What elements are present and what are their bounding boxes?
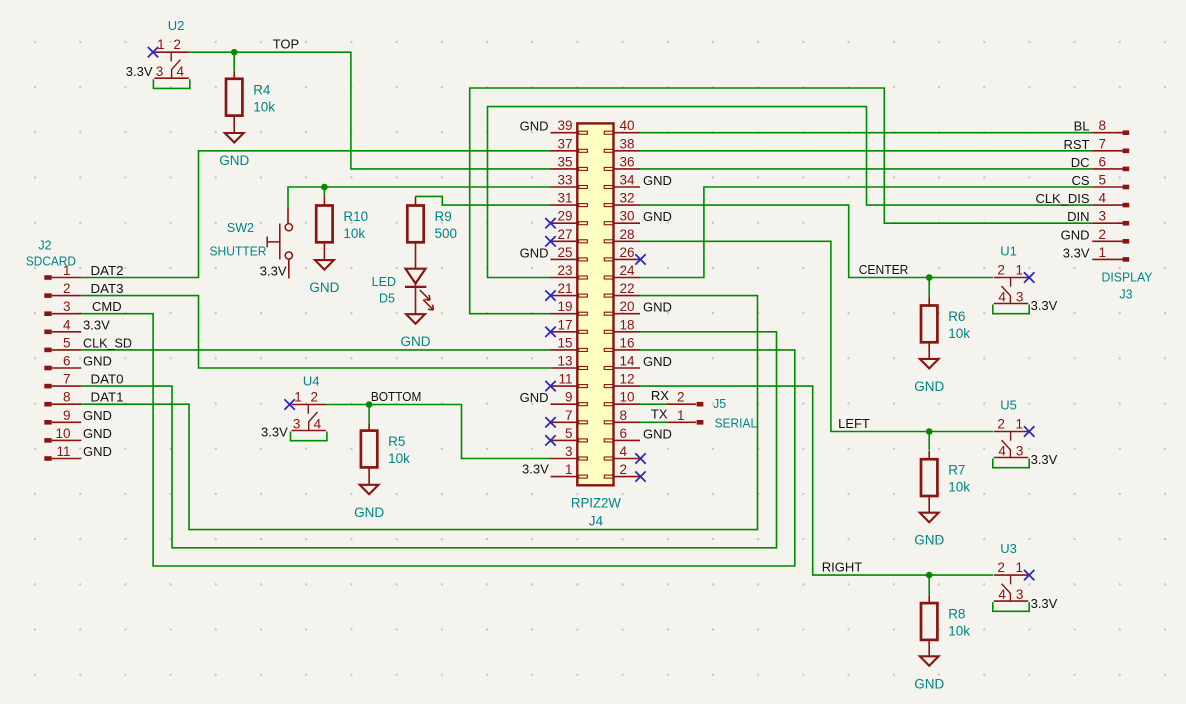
svg-text:29: 29: [557, 209, 572, 224]
J3 reference labels: [1102, 271, 1154, 302]
svg-text:R5: R5: [388, 434, 405, 449]
svg-text:SW2: SW2: [227, 221, 254, 235]
wire DC (J4-36 to J3-6): [640, 168, 1092, 170]
svg-text:5: 5: [565, 426, 573, 441]
svg-text:21: 21: [557, 281, 572, 296]
svg-text:GND: GND: [354, 505, 384, 520]
svg-text:R7: R7: [948, 463, 965, 478]
svg-text:CS: CS: [1071, 173, 1089, 188]
svg-text:2: 2: [620, 462, 628, 477]
wire CLK_DIS (J4-23 to J3-4): [488, 107, 1093, 278]
J4 pin 39: [551, 118, 588, 134]
connector J3 pin 6: [1092, 154, 1129, 171]
svg-text:TX: TX: [651, 406, 668, 421]
wire R6 to CENTER: [928, 278, 930, 298]
svg-text:4: 4: [998, 587, 1006, 602]
ground at R4: [219, 133, 249, 168]
svg-text:GND: GND: [643, 426, 672, 441]
J4 pin 20: [604, 299, 640, 315]
switch U1: [994, 244, 1028, 305]
J4 pin 28: [604, 227, 640, 243]
J4 pin 24: [604, 263, 640, 279]
svg-text:R10: R10: [343, 209, 368, 224]
J4 pin 12: [604, 372, 640, 388]
J4 pin 31: [551, 191, 588, 207]
wire TX (J4-8 to J5-1): [640, 421, 668, 423]
svg-text:GND: GND: [643, 173, 672, 188]
J4 pin 9: [551, 390, 588, 406]
wire TOP net: [189, 52, 551, 169]
svg-text:6: 6: [63, 354, 71, 369]
no-connect J4 pin 21: [545, 290, 555, 300]
wire CS (J4-24 to J3-5): [640, 187, 1092, 278]
wire RIGHT (J4-12 to U3): [640, 386, 993, 575]
svg-text:7: 7: [565, 408, 573, 423]
J4 pin 15: [551, 335, 588, 351]
svg-text:GND: GND: [401, 334, 431, 349]
no-connect U4 pin 1: [284, 399, 294, 409]
J4 pin 3: [551, 444, 588, 460]
connector J2 pin 1: [44, 263, 81, 280]
connector J2 pin 8: [44, 390, 81, 407]
no-connect U3 pin 1: [1024, 570, 1034, 580]
svg-text:GND: GND: [1061, 227, 1090, 242]
svg-text:9: 9: [63, 408, 71, 423]
svg-text:3.3V: 3.3V: [1063, 245, 1090, 260]
J4 pin 23: [551, 263, 588, 279]
svg-text:3.3V: 3.3V: [83, 317, 110, 332]
J4 pin 18: [604, 317, 640, 333]
wire CENTER (J4-32 to U1): [640, 205, 993, 277]
svg-text:GND: GND: [309, 280, 339, 295]
svg-text:4: 4: [177, 64, 185, 79]
J4 pin 19: [551, 299, 588, 315]
svg-text:GND: GND: [914, 676, 944, 691]
J4 pin 21: [551, 281, 588, 297]
svg-text:DISPLAY: DISPLAY: [1102, 271, 1154, 285]
svg-text:4: 4: [998, 443, 1006, 458]
no-connect J4 pin 17: [545, 327, 555, 337]
svg-text:D5: D5: [379, 291, 395, 305]
svg-text:32: 32: [620, 191, 635, 206]
svg-text:1: 1: [157, 37, 165, 52]
svg-text:18: 18: [620, 317, 635, 332]
svg-text:CMD: CMD: [92, 299, 122, 314]
junction SHUTTER/R10: [321, 184, 328, 191]
svg-text:14: 14: [620, 354, 636, 369]
svg-text:7: 7: [63, 372, 71, 387]
no-connect J4 pin 5: [545, 435, 555, 445]
svg-text:3: 3: [1016, 587, 1024, 602]
svg-text:12: 12: [620, 372, 635, 387]
resistor R5 10k: [361, 431, 410, 468]
wire R9 to J4-31: [416, 196, 551, 205]
svg-text:U4: U4: [303, 374, 320, 389]
J4 pin 14: [604, 354, 640, 370]
no-connect J4 pin 11: [545, 381, 555, 391]
wire R10 to SHUTTER rail: [323, 187, 325, 196]
svg-text:3.3V: 3.3V: [1031, 596, 1058, 611]
svg-text:10k: 10k: [948, 326, 970, 341]
J4 pin 22: [604, 281, 640, 297]
svg-text:3: 3: [293, 416, 301, 431]
svg-text:39: 39: [557, 118, 572, 133]
svg-text:RPIZ2W: RPIZ2W: [571, 496, 621, 511]
junction BOTTOM/R5: [366, 401, 373, 408]
connector J3 pin 8: [1092, 118, 1129, 135]
connector J2 pin 3: [44, 299, 81, 316]
wire CMD (J2-3 to J4-16): [81, 314, 795, 566]
LED D5: [372, 269, 434, 315]
svg-text:J3: J3: [1119, 288, 1132, 302]
switch U4: [292, 374, 326, 432]
connector J5 pin 2: [667, 390, 703, 407]
svg-text:34: 34: [620, 173, 636, 188]
connector J2 pin 2: [44, 281, 81, 298]
resistor R8 10k: [921, 603, 970, 640]
resistor R7 10k: [921, 459, 970, 496]
ground at R8: [914, 656, 944, 691]
svg-text:4: 4: [998, 289, 1006, 304]
J4 pin 27: [551, 227, 588, 243]
svg-text:1: 1: [1015, 416, 1023, 431]
no-connect U5 pin 1: [1024, 426, 1034, 436]
connector J3 pin 2: [1092, 227, 1129, 244]
svg-text:SDCARD: SDCARD: [26, 255, 76, 269]
svg-text:8: 8: [620, 408, 628, 423]
connector J5 pin 1: [667, 408, 703, 425]
ground at R7: [914, 513, 944, 548]
connector J2 pin 11: [44, 444, 81, 461]
svg-text:3.3V: 3.3V: [522, 462, 549, 477]
no-connect J4 pin 2: [635, 471, 645, 481]
wire BOTTOM (U4 to J4-3): [326, 405, 551, 459]
svg-text:20: 20: [620, 299, 635, 314]
svg-text:3: 3: [1099, 209, 1107, 224]
svg-text:2: 2: [997, 560, 1005, 575]
svg-text:GND: GND: [643, 209, 672, 224]
wire CLK_SD (J2-5 to J4-15): [81, 349, 550, 351]
J4 pin 40: [604, 118, 640, 134]
connector J2 pin 7: [44, 372, 81, 389]
J4 pin 25: [551, 245, 588, 261]
J4 pin 13: [551, 354, 588, 370]
junction CENTER/R6: [926, 274, 933, 281]
svg-text:LED: LED: [372, 275, 396, 289]
svg-text:RST: RST: [1064, 137, 1090, 152]
svg-text:1: 1: [1015, 262, 1023, 277]
svg-text:3: 3: [1016, 443, 1024, 458]
svg-text:2: 2: [63, 281, 71, 296]
svg-text:8: 8: [1099, 118, 1107, 133]
connector J3 pin 4: [1092, 191, 1129, 208]
svg-text:40: 40: [620, 118, 635, 133]
no-connect J4 pin 4: [635, 453, 645, 463]
svg-text:25: 25: [557, 245, 572, 260]
svg-text:35: 35: [557, 154, 572, 169]
wire R5 to BOTTOM: [368, 405, 370, 424]
junction LEFT/R7: [926, 428, 933, 435]
svg-text:3.3V: 3.3V: [261, 425, 288, 440]
svg-text:27: 27: [557, 227, 572, 242]
svg-text:BL: BL: [1074, 119, 1090, 134]
svg-text:19: 19: [557, 299, 572, 314]
svg-text:10k: 10k: [948, 480, 970, 495]
wire RST (J4-38 to J3-7): [640, 150, 1092, 152]
svg-text:BOTTOM: BOTTOM: [371, 389, 422, 404]
svg-text:RIGHT: RIGHT: [822, 560, 863, 575]
svg-text:24: 24: [620, 263, 636, 278]
J2 reference labels: [26, 239, 76, 269]
svg-text:37: 37: [557, 136, 572, 151]
svg-text:GND: GND: [83, 354, 112, 369]
svg-text:DAT3: DAT3: [91, 281, 124, 296]
svg-text:3: 3: [63, 299, 71, 314]
svg-text:11: 11: [56, 444, 70, 459]
svg-text:DAT0: DAT0: [91, 372, 124, 387]
J4 pin 26: [604, 245, 640, 261]
svg-text:1: 1: [1015, 560, 1023, 575]
power 3.3V at U4: [261, 425, 327, 441]
svg-text:2: 2: [677, 390, 685, 405]
svg-text:CLK_SD: CLK_SD: [83, 335, 132, 350]
svg-text:CLK_DIS: CLK_DIS: [1036, 191, 1090, 206]
wire RX (J4-10 to J5-2): [640, 403, 668, 405]
svg-text:10: 10: [55, 426, 70, 441]
svg-text:R6: R6: [948, 309, 965, 324]
connector J2 pin 5: [44, 335, 81, 352]
junction TOP/R4: [231, 49, 238, 56]
J4 pin 37: [551, 136, 588, 152]
svg-text:36: 36: [620, 154, 635, 169]
junction RIGHT/R8: [926, 572, 933, 579]
resistor R9 500: [407, 206, 457, 243]
svg-text:28: 28: [620, 227, 635, 242]
svg-text:3: 3: [156, 64, 164, 79]
svg-text:4: 4: [1099, 191, 1107, 206]
J4 pin 33: [551, 173, 588, 189]
svg-text:GND: GND: [219, 153, 249, 168]
J4 pin 4: [604, 444, 640, 460]
svg-text:26: 26: [620, 245, 635, 260]
svg-text:2: 2: [1099, 227, 1107, 242]
svg-text:R9: R9: [435, 209, 452, 224]
connector J4 RPIZ2W body: [577, 123, 613, 485]
svg-text:2: 2: [310, 389, 318, 404]
svg-text:GND: GND: [83, 408, 112, 423]
svg-text:R4: R4: [253, 82, 271, 97]
connector J3 pin 7: [1092, 136, 1129, 153]
J4 pin 16: [604, 335, 640, 351]
svg-text:3.3V: 3.3V: [260, 264, 287, 279]
svg-text:GND: GND: [914, 533, 944, 548]
connector J2 pin 9: [44, 408, 81, 425]
no-connect U2 pin 1: [148, 47, 158, 57]
switch U5: [994, 398, 1028, 459]
J4 pin 7: [551, 408, 588, 424]
svg-text:10: 10: [620, 390, 635, 405]
resistor R4 10k: [226, 79, 275, 116]
svg-text:22: 22: [620, 281, 635, 296]
svg-text:5: 5: [1099, 173, 1107, 188]
svg-text:15: 15: [557, 335, 572, 350]
svg-text:DAT1: DAT1: [91, 390, 124, 405]
wire LEFT (J4-28 to U5): [640, 241, 993, 431]
svg-text:J4: J4: [589, 514, 604, 529]
svg-text:SHUTTER: SHUTTER: [210, 245, 267, 259]
wire R4 to TOP: [233, 52, 235, 72]
svg-text:4: 4: [620, 444, 628, 459]
no-connect J4 pin 7: [545, 417, 555, 427]
svg-text:J2: J2: [38, 239, 51, 253]
J4 pin 1: [551, 462, 588, 478]
svg-text:38: 38: [620, 136, 635, 151]
svg-text:GND: GND: [83, 444, 112, 459]
svg-text:6: 6: [1099, 154, 1107, 169]
svg-text:GND: GND: [520, 390, 549, 405]
svg-text:U1: U1: [1000, 244, 1017, 259]
svg-text:RX: RX: [651, 388, 669, 403]
svg-text:6: 6: [620, 426, 628, 441]
svg-text:SERIAL: SERIAL: [715, 417, 758, 431]
svg-text:3: 3: [565, 444, 573, 459]
svg-text:13: 13: [557, 354, 572, 369]
svg-text:4: 4: [63, 317, 71, 332]
svg-text:8: 8: [63, 390, 71, 405]
svg-text:GND: GND: [83, 426, 112, 441]
svg-text:1: 1: [677, 408, 685, 423]
power 3.3V at U5: [993, 452, 1058, 468]
switch U2: [154, 18, 188, 79]
wire DAT3 (J2-2 to J4-13): [81, 296, 550, 368]
svg-text:DIN: DIN: [1067, 209, 1089, 224]
ground at R6: [914, 359, 944, 394]
switch SW2 SHUTTER: [210, 207, 293, 278]
J4 pin 36: [604, 154, 640, 170]
power 3.3V at U2: [126, 64, 190, 89]
svg-text:500: 500: [435, 226, 458, 241]
wire DIN (J4-19 to J3-3): [470, 88, 1092, 314]
J4 pin 35: [551, 154, 588, 170]
svg-text:DC: DC: [1071, 155, 1090, 170]
svg-text:9: 9: [565, 390, 573, 405]
connector J3 pin 5: [1092, 173, 1129, 190]
ground at D5: [401, 314, 431, 349]
no-connect U1 pin 1: [1024, 272, 1034, 282]
connector J2 pin 4: [44, 317, 81, 334]
svg-text:4: 4: [314, 416, 322, 431]
svg-text:GND: GND: [643, 354, 672, 369]
J4 pin 5: [551, 426, 588, 442]
no-connect J4 pin 27: [545, 236, 555, 246]
switch U3: [994, 541, 1028, 602]
svg-text:16: 16: [620, 335, 635, 350]
svg-text:3.3V: 3.3V: [1031, 298, 1058, 313]
wire BL (J4-40 to J3-8): [640, 132, 1092, 134]
svg-text:17: 17: [557, 317, 572, 332]
svg-text:GND: GND: [520, 245, 549, 260]
J4 pin 17: [551, 317, 588, 333]
svg-text:2: 2: [997, 262, 1005, 277]
svg-text:30: 30: [620, 209, 635, 224]
J4 pin 34: [604, 173, 640, 189]
svg-text:23: 23: [557, 263, 572, 278]
connector J2 pin 10: [44, 426, 81, 443]
J4 pin 6: [604, 426, 640, 442]
svg-text:U3: U3: [1000, 541, 1017, 556]
resistor R10 10k: [316, 206, 368, 243]
svg-text:1: 1: [294, 389, 302, 404]
connector J2 pin 6: [44, 354, 81, 371]
svg-text:10k: 10k: [948, 624, 970, 639]
no-connect J4 pin 29: [545, 218, 555, 228]
wire R8 to RIGHT: [928, 575, 930, 595]
J4 pin 11: [551, 372, 588, 388]
svg-text:CENTER: CENTER: [859, 262, 909, 277]
no-connect J4 pin 26: [635, 254, 645, 264]
connector J3 pin 3: [1092, 209, 1129, 226]
wire DAT1 (J2-8 to J4-22): [81, 296, 757, 530]
power 3.3V at U1: [993, 298, 1058, 314]
wire R7 to LEFT: [928, 432, 930, 451]
svg-text:TOP: TOP: [273, 37, 300, 52]
svg-text:LEFT: LEFT: [838, 416, 870, 431]
wire DAT2 (J2-1 to J4-37): [81, 151, 550, 278]
svg-text:7: 7: [1099, 136, 1107, 151]
J4 pin 2: [604, 462, 640, 478]
svg-text:3: 3: [1016, 289, 1024, 304]
svg-text:GND: GND: [520, 119, 549, 134]
power 3.3V at U3: [993, 596, 1058, 612]
svg-text:R8: R8: [948, 607, 965, 622]
svg-text:U2: U2: [168, 18, 185, 33]
ground at R5: [354, 485, 384, 520]
svg-text:GND: GND: [643, 300, 672, 315]
J4 pin 29: [551, 209, 588, 225]
svg-text:2: 2: [997, 416, 1005, 431]
J4 pin 30: [604, 209, 640, 225]
svg-text:10k: 10k: [388, 451, 410, 466]
svg-text:33: 33: [557, 173, 572, 188]
ground at R10: [309, 260, 339, 295]
J4 pin 10: [604, 390, 640, 406]
svg-text:10k: 10k: [253, 99, 275, 114]
wire SHUTTER rail (SW2 to J4-33): [288, 187, 551, 207]
wire DAT0 (J2-7 to J4-18): [81, 332, 776, 548]
J5 reference labels: [713, 397, 757, 431]
J4 pin 32: [604, 191, 640, 207]
svg-text:2: 2: [173, 37, 181, 52]
J4 pin 8: [604, 408, 640, 424]
svg-text:GND: GND: [914, 379, 944, 394]
svg-text:11: 11: [558, 372, 572, 387]
J4 pin 38: [604, 136, 640, 152]
svg-text:U5: U5: [1000, 398, 1017, 413]
resistor R6 10k: [921, 306, 970, 343]
svg-text:31: 31: [557, 191, 572, 206]
svg-text:1: 1: [1099, 245, 1107, 260]
connector J3 pin 1: [1092, 245, 1129, 262]
svg-text:10k: 10k: [343, 226, 365, 241]
svg-text:1: 1: [565, 462, 573, 477]
svg-text:3.3V: 3.3V: [126, 64, 153, 79]
svg-text:5: 5: [63, 335, 71, 350]
svg-text:J5: J5: [713, 397, 726, 411]
svg-text:3.3V: 3.3V: [1031, 452, 1058, 467]
svg-text:DAT2: DAT2: [91, 263, 124, 278]
